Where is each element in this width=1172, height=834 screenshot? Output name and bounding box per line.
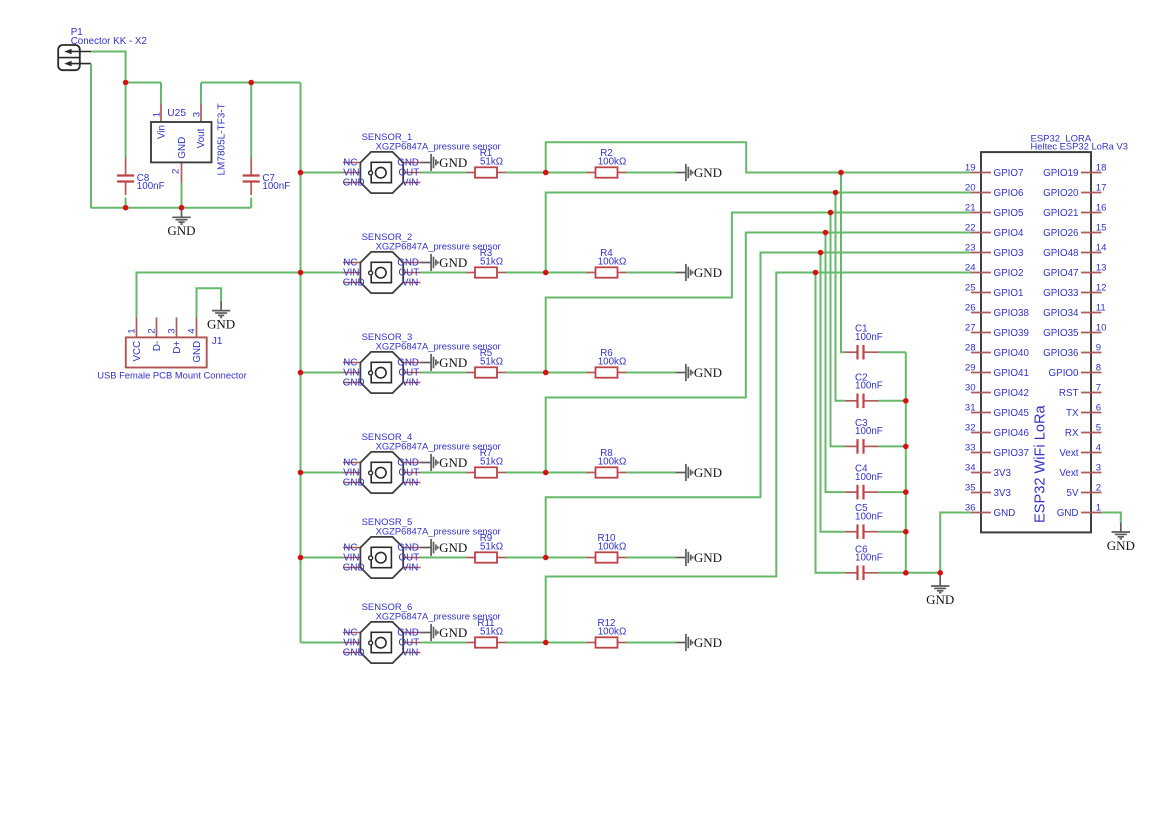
- svg-text:100nF: 100nF: [855, 332, 883, 343]
- junction 5V rail row 5: [298, 555, 304, 561]
- svg-text:GPIO26: GPIO26: [1043, 228, 1079, 239]
- wire GPIO row 20 down to C2: [836, 193, 846, 401]
- svg-text:51kΩ: 51kΩ: [480, 157, 503, 168]
- junction GND bus C2: [903, 398, 909, 404]
- wire U25 Vin riser: [160, 83, 162, 104]
- ground GND under U25: [172, 208, 190, 224]
- wire C4 to GND bus: [879, 491, 906, 493]
- svg-text:GPIO2: GPIO2: [994, 268, 1024, 279]
- svg-text:Heltec ESP32 LoRa V3: Heltec ESP32 LoRa V3: [1031, 141, 1128, 152]
- wire R8 to ground: [627, 472, 676, 474]
- wire node 2 to ESP32 GPIO row 20: [546, 193, 971, 273]
- svg-text:36: 36: [965, 502, 976, 513]
- svg-text:GPIO39: GPIO39: [994, 328, 1029, 339]
- svg-text:GPIO0: GPIO0: [1049, 368, 1079, 379]
- svg-text:ESP32 WiFi LoRa: ESP32 WiFi LoRa: [1032, 405, 1048, 523]
- svg-text:VIN: VIN: [402, 648, 418, 659]
- svg-text:100nF: 100nF: [855, 511, 883, 522]
- ESP32 pin 30 GPIO42: [965, 382, 1029, 399]
- wire SENOSR_5 OUT to R9: [421, 557, 467, 559]
- resistor R4 100k&#937;: [587, 248, 627, 277]
- resistor R5 51k&#937;: [466, 348, 506, 377]
- svg-text:2: 2: [171, 169, 182, 174]
- svg-text:8: 8: [1096, 362, 1101, 373]
- resistor R6 100k&#937;: [587, 348, 627, 377]
- svg-text:D-: D-: [152, 341, 163, 351]
- ESP32 pin 13 GPIO47: [1043, 262, 1106, 279]
- wire 5V rail to SENSOR_6 VIN: [301, 642, 344, 644]
- wire to C8 top: [125, 83, 127, 158]
- ESP32 pin 22 GPIO4: [965, 222, 1024, 239]
- junction GPIO row 23 / C5 drop: [818, 250, 824, 256]
- wire R3 to node 2: [506, 272, 546, 274]
- svg-text:GPIO42: GPIO42: [994, 388, 1029, 399]
- svg-text:100kΩ: 100kΩ: [598, 457, 627, 468]
- svg-text:GPIO41: GPIO41: [994, 368, 1029, 379]
- ESP32 pin 7 RST: [1059, 382, 1102, 399]
- ESP32 pin 12 GPIO33: [1043, 282, 1106, 299]
- svg-text:24: 24: [965, 262, 976, 273]
- svg-text:4: 4: [187, 328, 198, 334]
- svg-text:100nF: 100nF: [855, 381, 883, 392]
- capacitor C5 100nF: [845, 503, 883, 539]
- wire node 6 to R12: [546, 642, 587, 644]
- ESP32 pin 4 Vext: [1059, 442, 1101, 459]
- ground GND at SENSOR_3 GND pin: [421, 354, 438, 371]
- junction GND bus C5: [903, 529, 909, 535]
- resistor R12 100k&#937;: [587, 618, 627, 648]
- svg-text:GND: GND: [439, 155, 467, 170]
- wire R7 to node 4: [506, 472, 546, 474]
- ground GND after R12: [675, 634, 692, 651]
- svg-text:VIN: VIN: [402, 378, 418, 389]
- pressure sensor SENSOR_4 XGZP6847A: [343, 452, 421, 493]
- wire GPIO row 19 down to C1: [841, 173, 845, 353]
- svg-text:Vout: Vout: [196, 128, 207, 148]
- wire node 3 to R6: [546, 372, 587, 374]
- svg-text:VIN: VIN: [402, 278, 418, 289]
- ESP32 pin 25 GPIO1: [965, 282, 1024, 299]
- ESP32 pin 32 GPIO46: [965, 422, 1030, 439]
- svg-text:GND: GND: [694, 465, 722, 480]
- svg-text:GND: GND: [207, 316, 235, 331]
- svg-text:13: 13: [1096, 262, 1107, 273]
- junction GND bus C6: [903, 570, 909, 576]
- resistor R2 100k&#937;: [587, 148, 627, 178]
- svg-text:VIN: VIN: [402, 478, 418, 489]
- svg-text:GND: GND: [439, 355, 467, 370]
- svg-text:GND: GND: [343, 378, 365, 389]
- ESP32 pin 36 GND: [965, 502, 1015, 519]
- svg-text:9: 9: [1096, 342, 1101, 353]
- ESP32 pin 16 GPIO21: [1043, 202, 1106, 219]
- svg-text:28: 28: [965, 342, 976, 353]
- svg-text:GPIO40: GPIO40: [994, 348, 1030, 359]
- junction 5V rail row 2: [298, 270, 304, 276]
- wire GPIO row 23 down to C5: [821, 253, 846, 532]
- ESP32 pin 19 GPIO7: [965, 162, 1024, 179]
- junction node 4: [543, 470, 549, 476]
- svg-text:18: 18: [1096, 162, 1107, 173]
- svg-text:3: 3: [191, 112, 202, 117]
- svg-text:2: 2: [147, 328, 158, 333]
- wire R11 to node 6: [506, 642, 546, 644]
- svg-text:51kΩ: 51kΩ: [480, 457, 503, 468]
- svg-text:GND: GND: [926, 592, 954, 607]
- wire node 1 to R2: [546, 172, 587, 174]
- svg-text:1: 1: [151, 112, 162, 117]
- junction GPIO row 20 / C2 drop: [833, 190, 839, 196]
- svg-text:100kΩ: 100kΩ: [598, 357, 627, 368]
- svg-text:32: 32: [965, 422, 976, 433]
- ground GND at SENSOR_6 GND pin: [421, 624, 438, 641]
- wire C3 to GND bus: [879, 445, 906, 447]
- svg-text:GND: GND: [343, 178, 365, 189]
- svg-text:TX: TX: [1066, 408, 1079, 419]
- wire J1 GND to ground: [197, 288, 222, 317]
- capacitor C8 100nF: [117, 158, 164, 196]
- svg-text:3V3: 3V3: [994, 468, 1012, 479]
- svg-text:51kΩ: 51kΩ: [480, 357, 503, 368]
- wire SENSOR_3 OUT to R5: [421, 372, 467, 374]
- svg-text:VCC: VCC: [132, 341, 143, 362]
- wire R1 to node 1: [506, 172, 546, 174]
- svg-text:GND: GND: [439, 455, 467, 470]
- svg-text:10: 10: [1096, 322, 1107, 333]
- wire GPIO row 21 down to C3: [831, 213, 846, 447]
- wire C1 to GND bus: [879, 351, 906, 353]
- resistor R10 100k&#937;: [587, 533, 627, 563]
- pressure sensor SENSOR_6 XGZP6847A: [343, 622, 421, 663]
- ESP32 pin 3 Vext: [1059, 462, 1101, 479]
- wire 5V rail to SENSOR_1 VIN: [301, 172, 344, 174]
- ESP32 pin 9 GPIO36: [1043, 342, 1101, 359]
- resistor R3 51k&#937;: [466, 248, 506, 277]
- svg-text:GPIO3: GPIO3: [994, 248, 1024, 259]
- ESP32 pin 20 GPIO6: [965, 182, 1024, 199]
- svg-text:GPIO48: GPIO48: [1043, 248, 1079, 259]
- ground GND after R6: [675, 364, 692, 381]
- junction GPIO row 21 / C3 drop: [828, 210, 834, 216]
- wire SENSOR_6 OUT to R11: [421, 642, 467, 644]
- wire P1 pin2 down to GND rail: [90, 64, 92, 208]
- pressure sensor SENSOR_2 XGZP6847A: [343, 252, 421, 293]
- wire C2 to GND bus: [879, 400, 906, 402]
- svg-text:GPIO38: GPIO38: [994, 308, 1030, 319]
- svg-text:29: 29: [965, 362, 976, 373]
- svg-text:GND: GND: [694, 635, 722, 650]
- svg-text:GND: GND: [994, 508, 1016, 519]
- svg-text:27: 27: [965, 322, 976, 333]
- resistor R1 51k&#937;: [466, 148, 506, 178]
- svg-text:GND: GND: [694, 365, 722, 380]
- svg-text:GPIO5: GPIO5: [994, 208, 1024, 219]
- svg-text:23: 23: [965, 242, 976, 253]
- wire SENSOR_4 OUT to R7: [421, 472, 467, 474]
- svg-text:GND: GND: [439, 625, 467, 640]
- svg-text:100kΩ: 100kΩ: [598, 257, 627, 268]
- svg-text:30: 30: [965, 382, 976, 393]
- ESP32 pin 2 5V: [1067, 482, 1102, 499]
- wire 5V rail to SENOSR_5 VIN: [301, 557, 344, 559]
- ESP32 pin 10 GPIO35: [1043, 322, 1106, 339]
- junction GND node below ESP32: [937, 570, 943, 576]
- svg-text:26: 26: [965, 302, 976, 313]
- wire node 4 to R8: [546, 472, 587, 474]
- svg-text:100kΩ: 100kΩ: [598, 627, 627, 638]
- svg-text:Vin: Vin: [156, 125, 167, 139]
- wire U25 GND pin to GND rail: [181, 183, 183, 208]
- junction node 6: [543, 640, 549, 646]
- junction U25 GND / GND rail: [179, 205, 185, 211]
- svg-text:16: 16: [1096, 202, 1107, 213]
- svg-text:GND: GND: [192, 341, 203, 363]
- svg-text:Vext: Vext: [1059, 468, 1078, 479]
- wire C5 to GND bus: [879, 531, 906, 533]
- wire GND rail bottom: [91, 207, 251, 209]
- wire 5V rail to SENSOR_3 VIN: [301, 372, 344, 374]
- connector P1 Conector KK - X2: [58, 45, 91, 70]
- junction input net / C8: [123, 80, 129, 86]
- svg-text:GPIO37: GPIO37: [994, 448, 1029, 459]
- svg-text:GPIO35: GPIO35: [1043, 328, 1079, 339]
- wire 5V rail to SENSOR_4 VIN: [301, 472, 344, 474]
- wire J1 VCC to 5V rail: [137, 273, 301, 318]
- wire node 4 to ESP32 GPIO row 22: [546, 233, 971, 473]
- junction node 2: [543, 270, 549, 276]
- svg-text:RST: RST: [1059, 388, 1079, 399]
- svg-text:51kΩ: 51kΩ: [480, 542, 503, 553]
- ESP32 pin 27 GPIO39: [965, 322, 1029, 339]
- ESP32 pin 1 GND: [1057, 502, 1102, 519]
- svg-text:100nF: 100nF: [137, 181, 165, 192]
- svg-text:6: 6: [1096, 402, 1101, 413]
- svg-text:GPIO34: GPIO34: [1043, 308, 1079, 319]
- svg-text:GND: GND: [694, 165, 722, 180]
- pressure sensor SENSOR_1 XGZP6847A: [343, 152, 421, 193]
- wire SENSOR_1 OUT to R1: [421, 172, 467, 174]
- wire U25 Vout to 5V rail: [201, 82, 301, 84]
- junction 5V rail row 1: [298, 170, 304, 176]
- svg-text:2: 2: [1096, 482, 1101, 493]
- svg-text:LM7805L-TF3-T: LM7805L-TF3-T: [217, 103, 228, 175]
- wire ESP32 pin36 GND down: [940, 513, 971, 573]
- svg-text:100nF: 100nF: [855, 472, 883, 483]
- ESP32 pin 33 GPIO37: [965, 442, 1029, 459]
- svg-text:VIN: VIN: [402, 563, 418, 574]
- resistor R11 51k&#937;: [466, 618, 506, 648]
- ground GND near J1: [212, 301, 230, 317]
- junction GND bus C4: [903, 489, 909, 495]
- ESP32 pin 11 GPIO34: [1043, 302, 1106, 319]
- wire C6 row to GND node: [879, 572, 941, 574]
- svg-text:D+: D+: [172, 341, 183, 354]
- svg-text:3: 3: [167, 328, 178, 333]
- svg-text:31: 31: [965, 402, 976, 413]
- junction 5V rail row 4: [298, 470, 304, 476]
- capacitor C7 100nF: [243, 158, 290, 196]
- svg-text:15: 15: [1096, 222, 1107, 233]
- ground GND after R8: [675, 464, 692, 481]
- ESP32 pin 34 3V3: [965, 462, 1012, 479]
- junction node 3: [543, 370, 549, 376]
- svg-text:25: 25: [965, 282, 976, 293]
- svg-text:1: 1: [127, 328, 138, 333]
- ESP32 pin 24 GPIO2: [965, 262, 1024, 279]
- svg-text:100nF: 100nF: [855, 426, 883, 437]
- wire ESP32 pin1 GND: [1102, 513, 1121, 523]
- capacitor C2 100nF: [845, 372, 883, 408]
- svg-text:100kΩ: 100kΩ: [598, 542, 627, 553]
- voltage regulator U25 LM7805L-TF3-T: [151, 103, 212, 182]
- ESP32 pin 5 RX: [1065, 422, 1102, 439]
- svg-text:GND: GND: [1107, 538, 1135, 553]
- ground GND at SENSOR_2 GND pin: [421, 254, 438, 271]
- svg-text:GPIO4: GPIO4: [994, 228, 1024, 239]
- wire 5V vertical rail: [300, 83, 302, 643]
- wire C7 bottom to GND rail: [250, 198, 252, 208]
- svg-text:GPIO7: GPIO7: [994, 168, 1024, 179]
- ground GND at SENSOR_1 GND pin: [421, 154, 438, 171]
- ground GND after R2: [675, 164, 692, 181]
- svg-text:GPIO21: GPIO21: [1043, 208, 1078, 219]
- svg-text:100nF: 100nF: [855, 553, 883, 564]
- svg-text:19: 19: [965, 162, 976, 173]
- ESP32 pin 29 GPIO41: [965, 362, 1029, 379]
- wire node 5 to R10: [546, 557, 587, 559]
- ESP32 pin 35 3V3: [965, 482, 1012, 499]
- junction 5V rail row 3: [298, 370, 304, 376]
- svg-text:3V3: 3V3: [994, 488, 1012, 499]
- svg-text:GPIO6: GPIO6: [994, 188, 1024, 199]
- svg-text:51kΩ: 51kΩ: [480, 627, 503, 638]
- svg-text:3: 3: [1096, 462, 1101, 473]
- svg-text:GPIO46: GPIO46: [994, 428, 1030, 439]
- wire R9 to node 5: [506, 557, 546, 559]
- svg-text:J1: J1: [212, 336, 223, 347]
- wire R6 to ground: [627, 372, 676, 374]
- wire R10 to ground: [627, 557, 676, 559]
- capacitor C3 100nF: [845, 418, 883, 454]
- svg-text:GPIO20: GPIO20: [1043, 188, 1079, 199]
- junction node 5: [543, 555, 549, 561]
- wire to C7 top: [250, 83, 252, 158]
- svg-text:14: 14: [1096, 242, 1107, 253]
- ground GND at SENOSR_5 GND pin: [421, 539, 438, 556]
- svg-text:GND: GND: [694, 550, 722, 565]
- ESP32 pin 8 GPIO0: [1049, 362, 1102, 379]
- wire node 6 to ESP32 GPIO row 24: [546, 273, 971, 643]
- ESP32 pin 18 GPIO19: [1043, 162, 1106, 179]
- resistor R9 51k&#937;: [466, 533, 506, 563]
- svg-text:USB Female PCB Mount Connector: USB Female PCB Mount Connector: [97, 370, 247, 381]
- svg-text:22: 22: [965, 222, 976, 233]
- junction 5V rail / C7: [248, 80, 254, 86]
- svg-text:20: 20: [965, 182, 976, 193]
- svg-text:Vext: Vext: [1059, 448, 1078, 459]
- ground GND at SENSOR_4 GND pin: [421, 454, 438, 471]
- wire R4 to ground: [627, 272, 676, 274]
- wire node 1 to ESP32 GPIO row 19: [546, 142, 971, 172]
- svg-text:5: 5: [1096, 422, 1101, 433]
- svg-text:4: 4: [1096, 442, 1102, 453]
- svg-text:GND: GND: [343, 563, 365, 574]
- ESP32 pin 6 TX: [1066, 402, 1102, 419]
- wire GPIO row 22 down to C4: [826, 233, 846, 493]
- svg-text:51kΩ: 51kΩ: [480, 257, 503, 268]
- wire GPIO row 24 down to C6: [816, 273, 846, 573]
- svg-text:GND: GND: [177, 137, 188, 159]
- junction C8 / GND rail: [123, 205, 129, 211]
- svg-text:GND: GND: [439, 255, 467, 270]
- ESP32 pin 23 GPIO3: [965, 242, 1024, 259]
- wire capacitor GND bus vertical: [905, 352, 907, 573]
- ESP32 pin 14 GPIO48: [1043, 242, 1107, 259]
- ESP32 pin 15 GPIO26: [1043, 222, 1106, 239]
- svg-text:7: 7: [1096, 382, 1101, 393]
- svg-text:34: 34: [965, 462, 976, 473]
- wire R2 to ground: [627, 172, 676, 174]
- svg-text:GPIO33: GPIO33: [1043, 288, 1079, 299]
- svg-text:RX: RX: [1065, 428, 1079, 439]
- wire R5 to node 3: [506, 372, 546, 374]
- resistor R7 51k&#937;: [466, 448, 506, 477]
- svg-text:GPIO1: GPIO1: [994, 288, 1024, 299]
- svg-text:21: 21: [965, 202, 976, 213]
- svg-text:GND: GND: [694, 265, 722, 280]
- svg-text:U25: U25: [167, 108, 186, 119]
- svg-text:100nF: 100nF: [262, 181, 290, 192]
- junction node 1: [543, 170, 549, 176]
- wire node 2 to R4: [546, 272, 587, 274]
- ground GND after R4: [675, 264, 692, 281]
- wire node 5 to ESP32 GPIO row 23: [546, 253, 971, 558]
- junction GND bus C3: [903, 444, 909, 450]
- junction GPIO row 19 / C1 drop: [838, 170, 844, 176]
- svg-text:100kΩ: 100kΩ: [598, 157, 627, 168]
- svg-text:GPIO45: GPIO45: [994, 408, 1030, 419]
- svg-text:1: 1: [1096, 502, 1101, 513]
- ESP32 pin 28 GPIO40: [965, 342, 1030, 359]
- wire P1 pin1 to 5V input net: [91, 52, 126, 83]
- connector J1 USB Female PCB Mount Connector: [126, 318, 207, 368]
- svg-text:12: 12: [1096, 282, 1107, 293]
- svg-text:11: 11: [1096, 302, 1106, 313]
- junction GPIO row 22 / C4 drop: [823, 230, 829, 236]
- svg-text:GPIO36: GPIO36: [1043, 348, 1079, 359]
- svg-text:GND: GND: [1057, 508, 1079, 519]
- svg-text:5V: 5V: [1067, 488, 1079, 499]
- resistor R8 100k&#937;: [587, 448, 627, 477]
- svg-text:35: 35: [965, 482, 976, 493]
- wire SENSOR_2 OUT to R3: [421, 272, 467, 274]
- wire node 3 to ESP32 GPIO row 21: [546, 213, 971, 373]
- pressure sensor SENSOR_3 XGZP6847A: [343, 352, 421, 393]
- wire C8 bottom to GND rail: [125, 198, 127, 208]
- wire R12 to ground: [627, 642, 676, 644]
- svg-text:Conector KK - X2: Conector KK - X2: [71, 36, 147, 47]
- svg-text:GPIO19: GPIO19: [1043, 168, 1078, 179]
- capacitor C1 100nF: [845, 324, 883, 360]
- ground GND below capacitor bank: [931, 573, 949, 593]
- svg-text:33: 33: [965, 442, 976, 453]
- wire 5V rail to SENSOR_2 VIN: [301, 272, 344, 274]
- wire input net to U25 Vin: [126, 82, 161, 84]
- ESP32 pin 17 GPIO20: [1043, 182, 1106, 199]
- svg-text:GND: GND: [343, 648, 365, 659]
- svg-text:17: 17: [1096, 182, 1107, 193]
- ground GND right of ESP32: [1112, 522, 1130, 538]
